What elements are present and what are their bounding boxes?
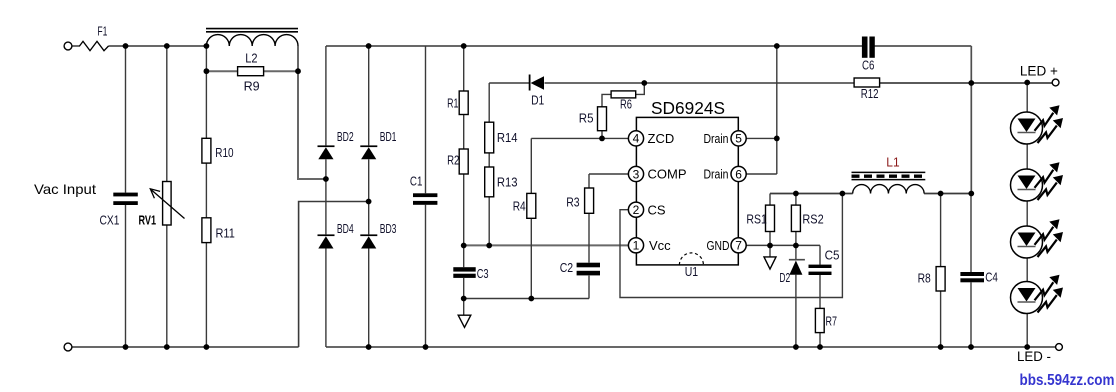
svg-text:BD2: BD2 [337,129,354,144]
svg-text:LED +: LED + [1020,62,1058,78]
svg-text:bbs.594zz.com: bbs.594zz.com [1020,372,1115,389]
svg-text:COMP: COMP [648,167,687,182]
svg-text:R1: R1 [447,95,458,110]
svg-text:RS2: RS2 [802,211,823,226]
svg-text:R8: R8 [918,270,931,285]
svg-text:BD4: BD4 [337,221,354,236]
svg-text:RV1: RV1 [139,212,157,227]
svg-text:C1: C1 [410,173,423,188]
svg-text:R7: R7 [826,313,838,328]
svg-text:D1: D1 [531,93,544,108]
svg-text:1: 1 [633,239,640,253]
svg-text:R11: R11 [216,226,235,241]
svg-text:Vcc: Vcc [649,238,671,253]
svg-text:ZCD: ZCD [648,131,675,146]
svg-text:R13: R13 [497,174,518,189]
svg-text:R14: R14 [497,130,518,145]
svg-text:C3: C3 [477,266,489,281]
svg-text:L2: L2 [245,50,257,65]
svg-text:Vac Input: Vac Input [34,181,96,197]
svg-text:F1: F1 [97,24,107,39]
svg-text:Drain: Drain [704,167,729,182]
svg-text:U1: U1 [685,264,698,279]
svg-text:CX1: CX1 [100,212,120,227]
svg-text:D2: D2 [779,270,790,285]
svg-text:R3: R3 [566,195,579,210]
svg-text:4: 4 [633,132,640,146]
svg-text:LED -: LED - [1017,348,1051,364]
svg-text:BD1: BD1 [380,129,397,144]
svg-text:5: 5 [735,132,742,146]
svg-text:BD3: BD3 [380,221,397,236]
svg-text:R2: R2 [447,153,459,168]
svg-text:C4: C4 [985,269,998,284]
svg-text:SD6924S: SD6924S [651,98,725,118]
svg-text:R5: R5 [579,111,594,126]
svg-text:R9: R9 [244,79,260,94]
svg-text:C2: C2 [560,260,573,275]
svg-text:R12: R12 [861,86,879,101]
svg-text:R10: R10 [215,145,233,160]
svg-text:6: 6 [735,167,742,181]
svg-text:3: 3 [633,167,640,181]
svg-text:L1: L1 [886,154,899,169]
svg-text:CS: CS [648,202,666,217]
svg-text:RS1: RS1 [746,211,767,226]
svg-text:R6: R6 [620,96,632,111]
svg-text:C6: C6 [862,57,874,72]
svg-text:2: 2 [633,203,640,217]
svg-text:C5: C5 [825,247,840,262]
svg-text:R4: R4 [513,199,526,214]
svg-text:GND: GND [707,238,730,253]
svg-text:Drain: Drain [704,131,729,146]
svg-text:7: 7 [735,239,742,253]
